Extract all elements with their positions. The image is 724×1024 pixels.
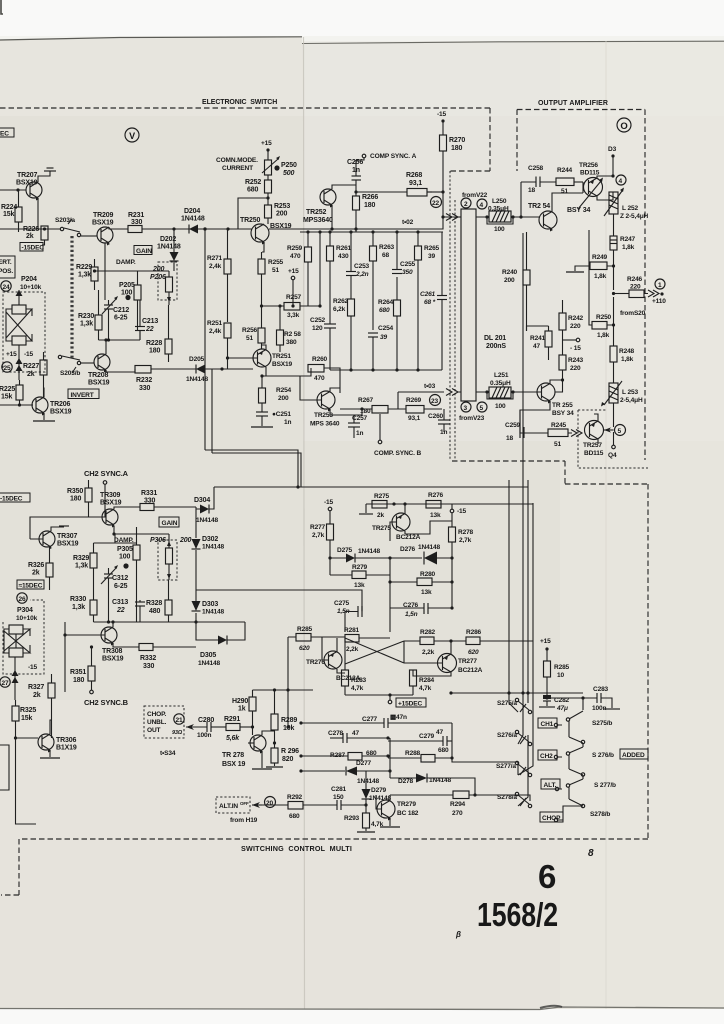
svg-text:2k: 2k: [26, 233, 34, 240]
node: [507, 691, 510, 694]
arrow into C280: [186, 724, 207, 730]
svg-text:2k: 2k: [32, 570, 40, 577]
resistor R330: [70, 578, 97, 622]
resistor R227: [23, 352, 47, 398]
svg-text:200: 200: [179, 537, 191, 544]
TR279 wires: [376, 795, 390, 826]
terminal COMP SYNC B: [374, 414, 421, 457]
svg-text:100: 100: [119, 554, 130, 561]
circled 26: [17, 593, 27, 603]
terminal +15: [288, 268, 299, 306]
resistor R262: [333, 298, 355, 370]
potentiometer P205: [119, 271, 141, 330]
circled 27: [0, 677, 10, 687]
svg-text:COMP SYNC. A: COMP SYNC. A: [370, 153, 417, 160]
capacitor C261: [420, 232, 447, 370]
node at TR207 base: [16, 188, 19, 191]
wire emitter to R260: [262, 368, 311, 376]
svg-text:TR279: TR279: [397, 801, 416, 808]
node: [371, 230, 374, 233]
centre crease: [304, 37, 305, 1009]
svg-text:TR251: TR251: [272, 353, 291, 360]
svg-text:ADDED: ADDED: [622, 752, 645, 759]
wiper output arrow: [16, 345, 23, 380]
node: [450, 606, 453, 609]
node: [450, 756, 453, 759]
TR278 collector to R289: [262, 731, 275, 735]
svg-text:+15: +15: [261, 140, 272, 147]
svg-text:180: 180: [149, 348, 160, 355]
resistor R232: [135, 366, 181, 393]
wire te03 into delay: [398, 391, 444, 393]
label DL201 200nS: [484, 335, 506, 350]
svg-text:R227: R227: [23, 363, 39, 370]
svg-text:≈15DEC: ≈15DEC: [19, 583, 43, 590]
node: [306, 230, 309, 233]
resistor R247: [610, 236, 636, 290]
wire C278 row: [330, 737, 343, 739]
ladder top bus: [300, 231, 443, 233]
resistor R329: [73, 543, 97, 578]
resistor R279: [330, 564, 390, 589]
TR251 base wire: [228, 358, 258, 369]
svg-text:R255: R255: [268, 259, 284, 266]
svg-text:CH2 SYNC.B: CH2 SYNC.B: [84, 698, 129, 707]
node: [612, 264, 615, 267]
resistor R289: [271, 700, 297, 743]
svg-text:100: 100: [494, 226, 505, 233]
terminal +15: [266, 148, 269, 160]
node: [392, 502, 395, 505]
transistor TR276: [306, 651, 361, 682]
svg-text:R245: R245: [551, 422, 567, 429]
main wire TR250 to delay line: [269, 217, 443, 229]
svg-text:24: 24: [3, 284, 10, 291]
svg-text:+15: +15: [6, 351, 17, 358]
bus y504: [366, 503, 533, 505]
svg-text:200: 200: [152, 266, 164, 273]
svg-text:0,35μH: 0,35μH: [488, 206, 509, 213]
long rails from ES to switches: [205, 229, 301, 487]
svg-text:-15: -15: [457, 508, 467, 515]
svg-text:C277: C277: [362, 716, 378, 723]
svg-text:3: 3: [464, 405, 468, 412]
svg-text:R246: R246: [627, 276, 643, 283]
svg-text:22: 22: [432, 200, 439, 207]
boxed label CHOP: [540, 812, 563, 822]
potentiometer P204 lower half: [12, 336, 26, 345]
dashed box ALT IN: [216, 797, 250, 813]
node: [296, 485, 299, 488]
svg-text:150: 150: [333, 794, 344, 801]
svg-text:R293: R293: [344, 815, 360, 822]
terminal D3: [608, 146, 617, 178]
node: [107, 620, 110, 623]
diode D204: [181, 208, 205, 234]
transistor TR255: [537, 383, 574, 417]
node: [318, 230, 321, 233]
svg-text:C254: C254: [378, 325, 394, 332]
node: [395, 230, 398, 233]
svg-text:2,7k: 2,7k: [459, 537, 472, 544]
svg-text:OUT: OUT: [147, 727, 161, 734]
svg-text:S277/a: S277/a: [496, 763, 516, 770]
svg-text:TR307: TR307: [57, 533, 78, 540]
resistor R327: [28, 674, 55, 738]
svg-text:UNBL.: UNBL.: [147, 719, 167, 726]
transistor TR256: [579, 162, 603, 197]
wire C277 row: [301, 722, 384, 724]
svg-text:R291: R291: [224, 716, 240, 723]
TR251 collector from R256: [262, 345, 267, 350]
main output rail down: [613, 297, 615, 346]
boxed label -15DEC (cut): [0, 493, 30, 503]
chevrons into delay bottom: [446, 389, 461, 396]
svg-text:Q4: Q4: [608, 452, 617, 459]
node: [545, 696, 548, 699]
svg-text:93Ω: 93Ω: [172, 730, 183, 736]
svg-text:OUTPUT AMPLIFIER: OUTPUT AMPLIFIER: [538, 100, 608, 107]
diode D276: [400, 544, 441, 565]
svg-text:R292: R292: [287, 794, 303, 801]
resistor R284: [410, 670, 435, 695]
svg-text:200: 200: [276, 211, 287, 218]
svg-text:BSX19: BSX19: [57, 541, 79, 548]
svg-text:BC 182: BC 182: [397, 810, 419, 817]
TR209 emitter wire down: [104, 243, 106, 300]
capacitor C276: [390, 602, 452, 618]
svg-text:1N4148: 1N4148: [418, 544, 441, 551]
svg-text:C253: C253: [354, 263, 370, 270]
wire D205 row: [181, 368, 253, 370]
svg-text:330: 330: [139, 385, 150, 392]
paper bottom edge: [0, 1007, 724, 1010]
svg-text:620: 620: [468, 649, 479, 656]
svg-text:R285: R285: [297, 626, 313, 633]
node: [299, 754, 302, 757]
resistor R244: [556, 167, 583, 195]
R296 ground: [266, 763, 283, 767]
svg-text:5: 5: [480, 405, 484, 412]
chevrons into TR257: [568, 430, 582, 437]
TR208 collector wire: [106, 340, 135, 372]
resistor R259: [287, 232, 312, 306]
svg-text:R284: R284: [419, 677, 435, 684]
capacitor C312 variable: [101, 565, 128, 590]
transistor TR207: [16, 172, 42, 201]
boxed label CH2: [538, 750, 557, 760]
svg-text:2k: 2k: [377, 512, 384, 519]
svg-text:TR 278: TR 278: [222, 752, 244, 759]
svg-text:P306: P306: [150, 537, 166, 544]
svg-text:22: 22: [116, 607, 125, 614]
resistor R225: [0, 380, 23, 405]
svg-text:1,3k: 1,3k: [78, 272, 91, 279]
svg-text:1N4148: 1N4148: [196, 517, 219, 524]
svg-text:R228: R228: [146, 340, 162, 347]
node: [526, 691, 529, 694]
resistor R258: [277, 306, 302, 352]
svg-text:21: 21: [176, 717, 183, 724]
resistor R350: [67, 480, 92, 517]
svg-text:180: 180: [73, 677, 84, 684]
section border: ES right edge: [449, 108, 490, 171]
node: [386, 736, 389, 739]
svg-text:100: 100: [495, 403, 506, 410]
svg-text:R244: R244: [557, 167, 573, 174]
svg-text:4,7k: 4,7k: [371, 821, 384, 828]
capacitor C253: [346, 232, 370, 299]
svg-text:6,2k: 6,2k: [333, 306, 346, 313]
svg-text:4,7k: 4,7k: [419, 685, 432, 692]
svg-text:C213: C213: [142, 318, 158, 325]
svg-text:DAMP.: DAMP.: [116, 259, 136, 266]
circled 4: [616, 175, 626, 185]
svg-text:t•03: t•03: [424, 383, 436, 390]
svg-text:1,3k: 1,3k: [80, 321, 93, 328]
resistor R286: [466, 629, 533, 656]
ground bar: [59, 525, 69, 527]
TR307 base wire: [30, 517, 89, 539]
resistor R250: [589, 230, 614, 339]
diode chain vertical wire: [196, 507, 218, 640]
terminal +15DEC: [388, 698, 426, 708]
resistor R242: [559, 300, 584, 355]
circled 4: [477, 199, 487, 209]
svg-text:S 277/b: S 277/b: [594, 782, 616, 789]
transistor TR309: [100, 492, 122, 528]
boxed label INVERT: [68, 389, 99, 399]
resistor R230: [78, 290, 102, 340]
svg-text:68 *: 68 *: [424, 299, 436, 306]
resistor R285b: [288, 626, 345, 652]
svg-text:51: 51: [246, 335, 253, 342]
resistor R249: [575, 254, 614, 280]
TR253 base: [300, 376, 322, 400]
top bus y487: [214, 486, 528, 488]
section border: bottom box dashed: [1, 839, 648, 895]
TR250 emitter down: [262, 242, 264, 252]
circled 21: [174, 714, 184, 724]
resistor R351: [70, 647, 95, 690]
svg-text:1N4148: 1N4148: [357, 778, 380, 785]
svg-text:10+10k: 10+10k: [16, 615, 38, 622]
svg-text:R288: R288: [405, 750, 421, 757]
wire a2: [518, 735, 528, 806]
TR207 emitter wire down: [37, 198, 39, 229]
svg-text:BSX19: BSX19: [272, 361, 293, 368]
TR254 collector up: [552, 193, 583, 212]
svg-text:D303: D303: [202, 601, 218, 608]
svg-text:R263: R263: [379, 244, 395, 251]
terminal Q4: [608, 432, 617, 459]
svg-text:100n: 100n: [197, 732, 211, 739]
diode D304: [194, 487, 219, 524]
transistor TR278: [222, 735, 266, 768]
P204 cross wiring: [6, 309, 32, 341]
svg-text:CH1: CH1: [541, 721, 554, 728]
node: [291, 304, 294, 307]
circled 5b: [477, 402, 487, 412]
wire S203/b to TR208: [81, 362, 94, 364]
terminal CH2 SYNC B: [90, 690, 94, 694]
switch S203/a: [55, 217, 81, 237]
svg-text:23: 23: [431, 398, 438, 405]
svg-text:330: 330: [144, 498, 155, 505]
svg-text:BC212A: BC212A: [458, 667, 483, 674]
node R351 top: [90, 645, 93, 648]
arrow to circled 5: [604, 427, 614, 432]
wire R266 to R268: [356, 191, 407, 193]
capacitor C260: [428, 409, 450, 436]
resistor R266: [353, 194, 379, 232]
svg-text:R254: R254: [276, 387, 292, 394]
node: [107, 338, 110, 341]
svg-text:500: 500: [283, 170, 294, 177]
svg-text:TR250: TR250: [240, 217, 261, 224]
svg-text:R271: R271: [207, 255, 223, 262]
bottom bus of gain cell: [94, 586, 169, 622]
svg-text:6-25: 6-25: [114, 315, 128, 322]
boxed label -15DEC: [17, 580, 44, 590]
svg-text:MPS3640: MPS3640: [303, 217, 333, 224]
resistor R263: [370, 232, 395, 330]
svg-text:680: 680: [289, 813, 300, 820]
svg-text:13k: 13k: [421, 589, 432, 596]
svg-text:t•S34: t•S34: [160, 750, 176, 757]
svg-text:TR257: TR257: [583, 442, 602, 449]
svg-text:P205: P205: [119, 282, 135, 289]
transistor TR254: [528, 203, 590, 232]
wire R280 links: [390, 558, 452, 582]
svg-text:R251: R251: [207, 320, 223, 327]
svg-text:R257: R257: [286, 294, 302, 301]
svg-text:fromV23: fromV23: [459, 415, 485, 422]
svg-text:B1X19: B1X19: [56, 745, 77, 752]
capacitor C283: [592, 686, 612, 712]
svg-text:39: 39: [380, 334, 387, 341]
svg-text:R332: R332: [140, 655, 156, 662]
resistor R278: [449, 527, 474, 558]
svg-text:BSX19: BSX19: [88, 380, 110, 387]
svg-text:TR2 54: TR2 54: [528, 203, 550, 210]
resistor R256: [242, 306, 265, 349]
C282 ground: [539, 706, 555, 708]
svg-text:D3: D3: [608, 146, 617, 153]
svg-text:C258: C258: [528, 165, 544, 172]
svg-text:from H19: from H19: [230, 817, 258, 824]
long wire from R325 down and right: [16, 738, 37, 824]
svg-text:20: 20: [266, 800, 273, 807]
TR306 collector up: [50, 720, 52, 734]
svg-text:R329: R329: [73, 555, 89, 562]
circled 3: [461, 402, 471, 412]
wire R240 to R241: [527, 326, 549, 331]
svg-text:R286: R286: [466, 629, 482, 636]
resistor R288: [388, 747, 452, 762]
svg-text:180: 180: [364, 202, 375, 209]
svg-text:680: 680: [379, 307, 390, 314]
node: [388, 580, 391, 583]
resistor R269: [406, 397, 442, 422]
svg-text:R241: R241: [530, 335, 546, 342]
svg-text:5: 5: [618, 428, 622, 435]
boxed label CH1: [538, 718, 557, 728]
svg-text:TR207: TR207: [17, 172, 38, 179]
svg-text:D275: D275: [337, 547, 353, 554]
inductor L250: [476, 198, 539, 233]
wire R285 from rail: [287, 637, 289, 727]
capacitor C251: [256, 411, 291, 426]
wire bus to switch a1: [451, 692, 583, 694]
capacitor C213: [135, 300, 158, 340]
svg-text:1k: 1k: [238, 706, 246, 713]
boxed label GAIN: [159, 517, 179, 527]
svg-text:S278/a: S278/a: [497, 794, 517, 801]
svg-text:200nS: 200nS: [486, 343, 506, 350]
P304 cross wiring: [4, 629, 30, 653]
svg-text:P204: P204: [21, 276, 37, 283]
svg-text:D278: D278: [398, 778, 414, 785]
node: [260, 374, 263, 377]
capacitor C259: [505, 422, 524, 442]
svg-text:47: 47: [533, 343, 540, 350]
wire from R243 to TR255: [555, 385, 563, 392]
svg-text:EC: EC: [0, 131, 9, 138]
section border: OA bottom step: [452, 461, 648, 484]
svg-text:3,3k: 3,3k: [287, 312, 300, 319]
circled 23: [430, 395, 441, 406]
wiper arrow P304: [12, 657, 19, 700]
svg-text:1,8k: 1,8k: [597, 332, 610, 339]
b-side stub wires: [557, 725, 583, 820]
svg-text:BSX19: BSX19: [102, 656, 124, 663]
resistor R326: [28, 547, 53, 590]
resistor R282: [404, 629, 466, 656]
R293 ground: [357, 828, 375, 832]
transistor TR306: [38, 734, 77, 753]
terminal -15 mid: [563, 338, 582, 352]
terminal -15: [441, 119, 444, 135]
resistor R277: [310, 524, 334, 558]
svg-text:S203/b: S203/b: [60, 370, 80, 377]
TR251 emitter down: [262, 367, 266, 388]
svg-text:D305: D305: [200, 652, 216, 659]
paper top edge line left: [0, 37, 302, 40]
svg-text:V: V: [129, 131, 135, 141]
TR279 ground: [380, 826, 400, 828]
wire R226 to -15DEC: [42, 240, 45, 245]
node: [450, 580, 453, 583]
svg-text:2,2n: 2,2n: [355, 271, 369, 278]
inductor L253 variable: [601, 381, 643, 427]
svg-text:47: 47: [352, 730, 359, 737]
svg-text:470: 470: [314, 375, 325, 382]
svg-text:10: 10: [557, 672, 564, 679]
svg-text:1,5n: 1,5n: [405, 611, 418, 618]
svg-text:18: 18: [506, 435, 513, 442]
svg-text:▩47n: ▩47n: [390, 714, 407, 721]
boxed label VERT.POS.: [0, 256, 15, 278]
svg-text:47μ: 47μ: [556, 705, 568, 712]
svg-text:SWITCHING CONTROL MULTI: SWITCHING CONTROL MULTI: [241, 844, 352, 853]
svg-text:BD115: BD115: [584, 450, 604, 457]
wire to R292: [262, 804, 288, 806]
TR252 emitter down: [331, 205, 333, 229]
svg-text:GAIN: GAIN: [162, 520, 178, 527]
TR306 emitter ground: [40, 750, 60, 758]
circled 20: [265, 797, 276, 808]
